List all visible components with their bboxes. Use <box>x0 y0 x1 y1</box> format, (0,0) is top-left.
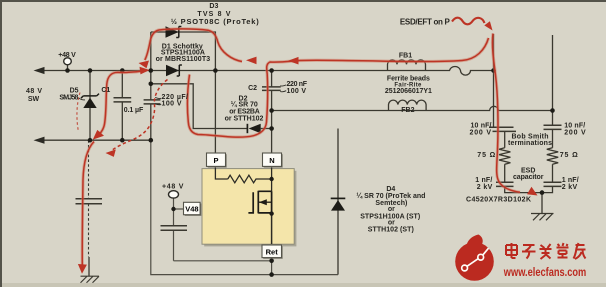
wire: bottom 48V SW return rail <box>42 139 151 141</box>
node bulk-D2 link <box>149 82 154 87</box>
svg-text:0.1 µF: 0.1 µF <box>124 107 144 114</box>
red path: main sweep along rail to D2 loop <box>187 38 488 137</box>
red path: swirl across C1 to return rail <box>97 70 147 136</box>
svg-text:www.elecfans.com: www.elecfans.com <box>503 267 586 279</box>
+48V oval terminal (V48 branch) <box>169 191 179 198</box>
svg-text:+48 V: +48 V <box>58 52 76 59</box>
wire: dashed chassis line with capacitor <box>88 140 90 257</box>
svg-text:½ PSOT08C (ProTek): ½ PSOT08C (ProTek) <box>171 17 260 26</box>
wire: D2 anode to N node <box>261 128 272 130</box>
svg-text:or ES2BA: or ES2BA <box>229 108 260 115</box>
svg-text:or: or <box>388 206 395 213</box>
resistor inside IC <box>228 175 272 183</box>
red arrowhead swirl lower end <box>93 130 104 140</box>
hot swap IC shadow <box>204 171 296 247</box>
node gate resistor <box>269 177 273 181</box>
capacitor 10nF right plates <box>544 125 562 129</box>
red path: down the termination network to ground <box>492 34 520 193</box>
svg-text:STTH102 (ST): STTH102 (ST) <box>368 227 414 234</box>
red arrowhead at termination ground <box>527 187 538 196</box>
red path: surge to chassis ground <box>82 142 94 265</box>
red arrowhead dashed path end <box>106 149 116 157</box>
node V48 tap <box>171 207 175 211</box>
node C1 bottom <box>120 138 125 143</box>
left arrow bottom rail <box>34 137 45 144</box>
svg-text:75 Ω: 75 Ω <box>560 152 578 159</box>
svg-text:ESD/EFT on P: ESD/EFT on P <box>400 17 451 26</box>
diode D3 TVS <box>166 26 182 37</box>
left arrow top rail <box>34 67 45 74</box>
terminal box V48 <box>184 202 202 216</box>
svg-text:2 kV: 2 kV <box>477 184 493 191</box>
svg-text:75 Ω: 75 Ω <box>477 152 495 159</box>
node D2 right <box>269 126 274 131</box>
svg-text:FB2: FB2 <box>401 107 414 114</box>
svg-text:1 nF/: 1 nF/ <box>475 177 492 184</box>
red arrowhead swirl right end <box>140 67 150 75</box>
wire: C1 branch <box>121 71 123 141</box>
node C2 top <box>269 68 274 73</box>
capacitor on dashed chassis line <box>76 199 103 204</box>
node source <box>269 211 273 215</box>
terminal box Ret <box>262 245 283 259</box>
red arrow: ESD/EFT pointer <box>452 18 485 25</box>
svg-text:N: N <box>269 156 274 165</box>
wire: +48V stub <box>67 65 69 71</box>
svg-text:D3: D3 <box>209 3 218 10</box>
node Ret inner <box>269 259 274 264</box>
red arrowhead at P entry <box>484 21 492 30</box>
wire: right Bob Smith branch upper <box>552 111 554 126</box>
wire: D3 TVS bypass loop over D1 <box>151 32 216 71</box>
wire: top 48V rail <box>42 67 494 76</box>
svg-text:+48 V: +48 V <box>162 184 184 191</box>
pointer 220nF <box>280 85 286 92</box>
ground (bottom left) <box>81 257 100 283</box>
wire: FB2 line with hop over left termination <box>272 106 553 110</box>
node C1 top <box>120 68 125 73</box>
wire: left branch between cap and resistor <box>504 131 506 147</box>
wire: left branch to 1nF cap <box>504 164 506 182</box>
svg-text:C1: C1 <box>101 87 110 94</box>
wire: source to Ret <box>271 215 273 244</box>
svg-text:2 kV: 2 kV <box>562 184 578 191</box>
svg-text:SMJ58: SMJ58 <box>59 94 78 101</box>
svg-text:200 V: 200 V <box>470 130 492 137</box>
diode D2 <box>247 124 260 133</box>
wire: right branch bottom to join node <box>542 186 553 192</box>
capacitor V48 branch plates <box>161 226 188 231</box>
wire: link from bulk cap node to D2 line <box>151 84 247 129</box>
label pointer ticks <box>79 85 286 105</box>
node bulk cap top <box>149 68 154 73</box>
svg-text:FB1: FB1 <box>399 52 412 59</box>
svg-text:D4: D4 <box>386 186 395 193</box>
pointer SMJ58 <box>79 98 85 100</box>
red arrowhead chassis ground end <box>78 264 87 274</box>
red path: loop around D3 bypass <box>145 29 242 62</box>
red arrowhead bypass loop end <box>139 61 150 69</box>
svg-text:1 nF/: 1 nF/ <box>562 177 579 184</box>
red arrowhead mid-sweep 1 <box>288 57 299 65</box>
wire: right branch to 1nF cap <box>552 164 554 182</box>
svg-text:¼ SR 70: ¼ SR 70 <box>231 101 258 109</box>
pointer 220uF <box>155 97 161 104</box>
diode D4 <box>331 198 346 210</box>
wire: Ret line below box <box>271 244 273 275</box>
ferrite bead FB2 <box>389 100 427 110</box>
wire: P lead inside IC <box>215 167 227 180</box>
svg-text:P: P <box>213 156 218 165</box>
svg-text:48 V: 48 V <box>26 88 42 95</box>
junction nodes <box>65 68 555 277</box>
ground (termination network) <box>531 214 554 221</box>
svg-text:C4520X7R3D102K: C4520X7R3D102K <box>466 196 531 203</box>
wire: 220uF bulk cap branch <box>150 32 152 140</box>
svg-text:terminations: terminations <box>508 140 552 147</box>
red path: dashed leakage to chassis <box>113 80 168 150</box>
wire: ground stem of termination network <box>541 193 543 214</box>
capacitor 1nF left plates <box>496 182 514 186</box>
wire: left branch bottom to join node <box>505 186 542 192</box>
node +48V tap <box>65 68 70 73</box>
node termination ground <box>540 190 545 195</box>
wire: P branch from rail to P terminal <box>214 71 216 154</box>
wire: D4 branch right side of loop <box>337 129 339 275</box>
wire: left Bob Smith branch upper <box>493 71 495 128</box>
node bulk cap bottom <box>149 138 154 143</box>
svg-text:or STTH102: or STTH102 <box>225 116 264 123</box>
red arrowhead mid-sweep 2 <box>246 57 257 65</box>
svg-text:C2: C2 <box>248 85 257 92</box>
watermark text: stylized hanzi strokes (dian zi fa shao you) <box>506 243 586 259</box>
wire: V48 branch <box>173 198 175 261</box>
watermark logo <box>455 235 494 281</box>
svg-text:or MBRS1100T3: or MBRS1100T3 <box>156 56 211 63</box>
terminal box P <box>207 153 227 168</box>
node D5 bottom <box>88 138 93 143</box>
wire: N lead inside IC <box>271 167 273 192</box>
svg-text:Ferrite beads: Ferrite beads <box>387 75 430 82</box>
red surge path overlay <box>82 29 520 265</box>
wire: P entry stub <box>493 34 495 71</box>
wire: inner return line <box>174 260 272 262</box>
svg-text:capacitor: capacitor <box>513 174 544 181</box>
node FB2 left <box>269 108 274 113</box>
svg-text:100 V: 100 V <box>287 88 307 95</box>
svg-text:220 nF: 220 nF <box>287 81 308 88</box>
diode D5 SMJ58 TVS <box>81 94 99 108</box>
svg-text:V48: V48 <box>185 205 198 214</box>
hot swap IC body (yellow) <box>202 169 294 245</box>
node Ret outer <box>269 272 274 277</box>
wire: C2 branch / N line <box>271 71 273 154</box>
capacitor 1nF right plates <box>544 182 562 186</box>
transistor MOSFET inside IC <box>248 191 271 215</box>
capacitor C2 plates <box>262 87 281 91</box>
ferrite bead FB1 <box>388 60 426 71</box>
wire: right branch between cap and resistor <box>552 129 554 147</box>
capacitor 220uF plates <box>144 100 161 104</box>
svg-text:2512066017Y1: 2512066017Y1 <box>385 88 432 95</box>
svg-text:100 V: 100 V <box>162 101 182 108</box>
diode D1 Schottky <box>166 65 182 77</box>
node rail right <box>491 68 496 73</box>
node bypass/P <box>213 68 218 73</box>
svg-text:SW: SW <box>28 96 40 103</box>
svg-text:Ret: Ret <box>266 248 279 257</box>
svg-text:200 V: 200 V <box>564 130 586 137</box>
wire: N entry stub <box>552 35 554 111</box>
terminal box N <box>263 153 283 168</box>
node FB2 right <box>550 108 555 113</box>
capacitor C1 plates <box>114 98 132 102</box>
resistor 75 ohm right <box>547 148 558 164</box>
red path: faint dashed at chassis line <box>77 93 80 133</box>
+48V terminal circle <box>64 58 72 65</box>
wire: V48 box stub <box>174 208 184 210</box>
resistor 75 ohm left <box>499 148 510 164</box>
capacitor 10nF left plates <box>489 127 516 131</box>
wire: D5 branch <box>89 71 91 141</box>
wire: outer return loop <box>151 140 338 274</box>
node D5 top <box>88 68 93 73</box>
